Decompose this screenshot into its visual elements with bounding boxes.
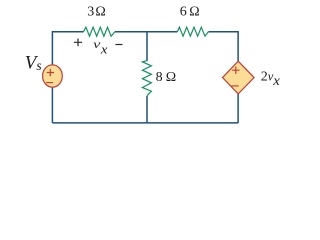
resistor R3 8-ohm (middle, vertical zigzag): [142, 61, 151, 96]
svg-text:Vs: Vs: [25, 53, 42, 74]
svg-text:8Ω: 8Ω: [156, 70, 177, 85]
dependent source U1 (diamond, 2vx): [223, 61, 255, 94]
svg-text:2vx: 2vx: [261, 69, 280, 88]
plus sign inside diamond: [232, 67, 239, 74]
label: plus polarity of vx: [74, 39, 82, 47]
svg-text:3Ω: 3Ω: [87, 5, 106, 20]
wire: middle branch top (T-junction down to 8-ohm): [146, 32, 148, 61]
wire: bottom rail: [52, 122, 238, 124]
svg-text:vx: vx: [93, 39, 108, 57]
wire: top-left segment from Vs top up and right to 3-ohm resistor: [52, 32, 83, 65]
wire: right vertical below diamond source: [237, 94, 239, 123]
wire: top middle segment between 3-ohm and 6-ohm resistors: [115, 31, 178, 33]
resistor R2 6-ohm (top right, horizontal zigzag): [177, 27, 208, 36]
plus sign inside Vs: [47, 69, 54, 76]
resistor R1 3-ohm (top left, horizontal zigzag): [84, 27, 115, 36]
minus sign inside Vs: [46, 82, 53, 84]
wire: left vertical below Vs source: [51, 87, 53, 123]
voltage source Vs (independent, circle): [43, 65, 63, 87]
svg-text:6Ω: 6Ω: [180, 5, 200, 20]
minus sign inside diamond: [231, 85, 238, 87]
label: minus polarity of vx: [115, 44, 122, 46]
wire: middle branch bottom (8-ohm down to bottom rail): [146, 96, 148, 123]
wire: top-right segment from 6-ohm to corner and down to diamond top: [208, 32, 238, 62]
